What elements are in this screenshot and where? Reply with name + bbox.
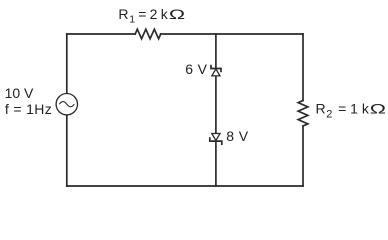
- svg-text:Ω: Ω: [370, 101, 386, 117]
- svg-text:8: 8: [226, 128, 234, 144]
- svg-text:6: 6: [185, 61, 193, 77]
- wire middle branch upper (node to D1 cathode): [215, 34, 217, 68]
- resistor R1 zigzag: [135, 29, 161, 39]
- wire top-left segment: [67, 33, 135, 35]
- svg-text:1: 1: [129, 14, 135, 26]
- svg-text:R: R: [118, 6, 128, 22]
- wire bottom: [67, 185, 303, 187]
- wire left upper: [66, 34, 68, 94]
- wire right lower: [302, 126, 304, 186]
- svg-text:f = 1Hz: f = 1Hz: [5, 101, 52, 117]
- svg-text:V: V: [198, 61, 208, 77]
- resistor R2 zigzag: [298, 101, 308, 126]
- label R2 = 1 kOhm: [316, 101, 387, 121]
- zener diode D2 (8 V) triangle: [212, 134, 220, 141]
- zener diode D1 (6 V) cathode bar: [211, 66, 221, 72]
- svg-text:= 1 k: = 1 k: [338, 101, 370, 117]
- wire right upper: [302, 34, 304, 101]
- svg-text:= 2 k: = 2 k: [138, 6, 169, 22]
- svg-text:V: V: [239, 128, 249, 144]
- label R1 = 2 kOhm: [118, 6, 185, 26]
- zener diode D1 (6 V) triangle: [212, 69, 220, 76]
- svg-text:Ω: Ω: [169, 6, 185, 22]
- svg-text:2: 2: [326, 108, 332, 120]
- zener diode D2 (8 V) cathode bar: [210, 138, 222, 144]
- wire middle branch between diodes: [215, 76, 217, 134]
- voltage source V1 circle: [56, 94, 77, 115]
- voltage source V1 sine wave: [59, 102, 74, 107]
- svg-text:10 V: 10 V: [5, 85, 34, 101]
- wire top-right segment: [161, 33, 303, 35]
- wire left lower: [66, 115, 68, 186]
- svg-text:R: R: [316, 101, 326, 117]
- wire middle branch lower (D2 cathode to bottom node): [215, 141, 217, 186]
